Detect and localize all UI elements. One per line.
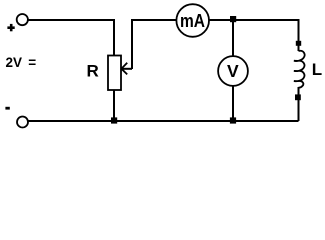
svg-text:R: R [87,61,99,80]
label + [7,24,14,31]
node junction top (mA to V) [230,16,236,22]
inductor terminal square top [296,41,301,46]
wire inductor straight stubs [298,43,300,51]
inductor terminal square bottom [295,94,301,100]
resistor R (rheostat body) [108,56,121,91]
svg-text:mA: mA [180,11,205,31]
svg-text:2V: 2V [6,55,23,70]
label - [5,107,9,110]
ammeter mA [176,4,209,37]
wire V branch vertical [232,19,234,121]
wire top rail mA to right corner and down [176,20,299,43]
wiper wire with arrow [122,20,177,74]
wire inductor bottom segment [298,97,300,121]
terminal + (open circle) [17,14,28,25]
node junction bottom (V to rail) [230,117,236,123]
terminal - (open circle) [17,117,28,128]
svg-text:V: V [227,61,239,81]
node junction bottom (R to rail) [111,117,117,123]
voltmeter V [218,56,248,86]
svg-text:L: L [312,60,322,79]
wire resistor bottom to rail [113,89,115,121]
inductor L coil [294,51,305,88]
svg-text:=: = [28,55,36,70]
wire bottom rail [28,120,298,122]
wire top rail from + terminal [28,20,114,56]
